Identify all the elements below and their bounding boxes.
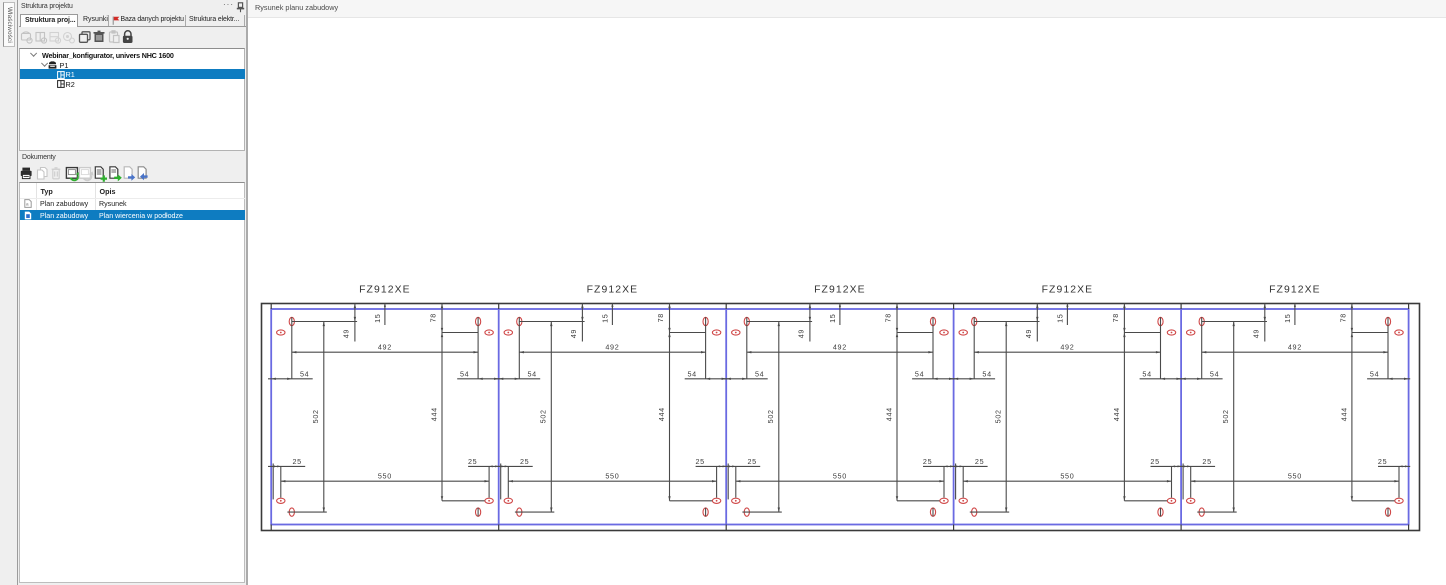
svg-text:25: 25 [292, 457, 301, 466]
properties vertical tab [3, 2, 15, 47]
module 5 hole bottom-left vertical [1199, 508, 1204, 516]
svg-text:550: 550 [833, 471, 847, 480]
icon send document [124, 166, 135, 180]
module 2 dimension 492 [519, 342, 705, 353]
svg-text:25: 25 [1202, 457, 1211, 466]
svg-text:492: 492 [605, 342, 619, 351]
module 2 hole bottom-right vertical [703, 508, 708, 517]
module 5 dimension 15 [1283, 304, 1296, 326]
module 4 dimension 54 right [1140, 369, 1183, 380]
module 4 hole bottom-left vertical [972, 508, 977, 516]
module 1 dimension 54 left [268, 369, 313, 380]
table header [41, 187, 53, 196]
module 3 hole top-left vertical [744, 317, 749, 379]
module 2 dimension 502 [515, 322, 554, 513]
tree row R1 (selected) [57, 71, 65, 79]
module 2 hole bottom-right horizontal [712, 498, 720, 503]
module 5 hole top-right vertical [1385, 317, 1390, 379]
frame stub [498, 304, 500, 531]
svg-text:49: 49 [342, 329, 351, 338]
module 4 hole top-right horizontal [1167, 330, 1175, 335]
module 2 dimension 54 left [496, 369, 541, 380]
module 5 dimension 25 left [1178, 457, 1215, 500]
table row 1 [24, 199, 32, 208]
tree row selection R1 [20, 69, 245, 78]
icon export document [110, 166, 122, 181]
module 1 hole bottom-right vertical [476, 508, 481, 517]
module 5 hole bottom-right vertical [1385, 508, 1390, 517]
svg-text:a: a [26, 202, 29, 207]
svg-text:550: 550 [1060, 471, 1074, 480]
svg-text:15: 15 [1055, 313, 1064, 322]
module 3 hole bottom-left horizontal [732, 498, 740, 503]
svg-text:FZ912XE: FZ912XE [1269, 285, 1321, 296]
svg-text:492: 492 [378, 342, 392, 351]
documents band [22, 154, 56, 161]
module 3 dimension 15 [828, 304, 841, 326]
frame stub [1408, 304, 1410, 531]
module 4 hole bottom-right horizontal [1167, 498, 1175, 503]
module 4 dimension 15 [1055, 304, 1068, 326]
documents toolbar icons [14, 165, 214, 184]
module 2 hole bottom-left vertical [517, 508, 522, 516]
module 3 dimension 25 right [923, 457, 955, 498]
red flag icon [112, 16, 120, 25]
icon delete (bin) [94, 31, 105, 42]
module 1 dimension 502 [287, 322, 326, 513]
module 1 dimension 550 [281, 471, 489, 482]
svg-text:15: 15 [1283, 313, 1292, 322]
pin icon [236, 2, 245, 13]
module 5 hole bottom-right horizontal [1395, 498, 1403, 503]
icon copy [80, 32, 91, 43]
svg-text:54: 54 [300, 369, 309, 378]
module 3 dimension 49 [797, 304, 812, 342]
module 4 dimension 25 left [950, 457, 987, 500]
svg-text:550: 550 [1288, 471, 1302, 480]
svg-text:502: 502 [311, 409, 320, 423]
module 1 hole bottom-left vertical [289, 508, 294, 516]
column separators [36, 183, 37, 210]
project toolbar icons [17, 29, 142, 47]
icon copy (disabled) [38, 167, 48, 179]
module 3 dimension 54 right [912, 369, 955, 380]
module 5 dimension 492 [1202, 342, 1388, 353]
module 5 dimension 78 [1339, 304, 1354, 333]
module 5 hole top-left vertical [1199, 317, 1204, 379]
svg-text:FZ912XE: FZ912XE [814, 285, 866, 296]
module 1 dimension 492 [292, 342, 478, 353]
svg-text:15: 15 [600, 313, 609, 322]
svg-text:550: 550 [605, 471, 619, 480]
module 4 hole bottom-right vertical [1158, 508, 1163, 517]
module 4 dimension 54 left [950, 369, 995, 380]
module 1 dimension 25 left [268, 457, 305, 500]
module 5 hole top-right horizontal [1395, 330, 1403, 335]
module 5 dimension 54 right [1367, 369, 1410, 380]
module 1 dimension 54 right [457, 369, 500, 380]
module 4 dimension 550 [963, 471, 1171, 482]
module 1 leader line top-left [292, 321, 357, 323]
icon paste (disabled) [110, 31, 120, 43]
icon export drawing (disabled) [79, 167, 93, 180]
module 4 dimension 502 [970, 322, 1009, 513]
icon print [21, 167, 32, 178]
module 2 dimension 444 [657, 333, 712, 501]
module 1 hole bottom-left horizontal [277, 498, 285, 503]
icon export drawing [66, 167, 80, 180]
svg-text:FZ912XE: FZ912XE [359, 285, 411, 296]
module 4 hole top-left horizontal [959, 330, 967, 335]
svg-text:FZ912XE: FZ912XE [587, 285, 639, 296]
cabinet divider 1 blue [498, 309, 500, 525]
svg-text:49: 49 [569, 329, 578, 338]
module 5 dimension 502 [1197, 322, 1236, 513]
module 2 dimension 15 [600, 304, 613, 326]
module 5 leader line top-left [1202, 321, 1267, 323]
svg-text:49: 49 [797, 329, 806, 338]
drawing area header bar [248, 0, 1446, 18]
svg-text:54: 54 [527, 369, 536, 378]
module 3 dimension 550 [736, 471, 944, 482]
svg-text:FZ912XE: FZ912XE [1042, 285, 1094, 296]
icon add panel (disabled) [36, 33, 47, 44]
svg-text:502: 502 [994, 409, 1003, 423]
icon remove panel (disabled) [50, 33, 61, 44]
module 1 hole top-left vertical [289, 317, 294, 379]
icon add document [95, 166, 107, 181]
svg-text:15: 15 [373, 313, 382, 322]
module 2 hole top-left horizontal [504, 330, 512, 335]
svg-text:25: 25 [1378, 457, 1387, 466]
module 3 dimension 502 [742, 322, 781, 513]
svg-text:78: 78 [656, 313, 665, 322]
module 4 hole top-right vertical [1158, 317, 1163, 379]
module 2 dimension 78 [656, 304, 671, 333]
svg-text:54: 54 [687, 369, 696, 378]
documents table box [19, 182, 245, 583]
module 1 dimension 78 [429, 304, 444, 333]
svg-text:444: 444 [657, 407, 666, 421]
svg-text:78: 78 [1111, 313, 1120, 322]
tree row project [31, 52, 37, 58]
icon lock [123, 31, 133, 43]
svg-text:492: 492 [1288, 342, 1302, 351]
module 2 hole bottom-left horizontal [504, 498, 512, 503]
icon rotate (disabled) [64, 33, 75, 43]
module 1 hole top-right vertical [476, 317, 481, 379]
module 3 dimension 492 [747, 342, 933, 353]
module 2 hole top-right horizontal [712, 330, 720, 335]
left dock panel [0, 0, 248, 585]
module 1 dimension 15 [373, 304, 386, 326]
tab strip [19, 14, 247, 28]
module 5 dimension 49 [1252, 304, 1267, 342]
svg-text:54: 54 [460, 369, 469, 378]
module 2 dimension 54 right [685, 369, 728, 380]
project tree box [19, 48, 245, 152]
module 4 dimension 25 right [1150, 457, 1182, 498]
module 3 dimension 25 left [723, 457, 760, 500]
module 4 dimension 49 [1024, 304, 1039, 342]
base plate outer outline [262, 304, 1420, 531]
cabinet divider 4 blue [1180, 309, 1182, 525]
module 2 hole top-left vertical [517, 317, 522, 379]
module 5 dimension 550 [1191, 471, 1399, 482]
tree row R2 [57, 80, 65, 88]
svg-text:25: 25 [747, 457, 756, 466]
svg-text:54: 54 [1370, 369, 1379, 378]
svg-text:492: 492 [1060, 342, 1074, 351]
icon new cabinet (disabled) [22, 32, 33, 43]
module 4 hole bottom-left horizontal [959, 498, 967, 503]
module 3 hole bottom-left vertical [744, 508, 749, 516]
svg-text:25: 25 [695, 457, 704, 466]
module 4 dimension 492 [974, 342, 1160, 353]
module 3 hole top-right horizontal [940, 330, 948, 335]
module 3 hole top-left horizontal [732, 330, 740, 335]
icon import document [138, 166, 147, 179]
svg-text:54: 54 [1210, 369, 1219, 378]
svg-text:502: 502 [539, 409, 548, 423]
module 3 leader line top-left [747, 321, 812, 323]
module 3 hole bottom-right vertical [930, 508, 935, 517]
module 2 dimension 25 right [695, 457, 727, 498]
frame stub [725, 304, 727, 531]
svg-text:444: 444 [429, 407, 438, 421]
svg-text:78: 78 [429, 313, 438, 322]
tree row P1 [42, 62, 48, 68]
module 4 hole top-left vertical [972, 317, 977, 379]
svg-text:49: 49 [1252, 329, 1261, 338]
svg-text:25: 25 [975, 457, 984, 466]
module 1 dimension 49 [342, 304, 357, 342]
frame stub [1180, 304, 1182, 531]
cabinet divider 2 blue [725, 309, 727, 525]
svg-text:78: 78 [1339, 313, 1348, 322]
panel titlebar [21, 3, 73, 10]
svg-text:25: 25 [468, 457, 477, 466]
cabinet frame blue outline [271, 309, 1408, 525]
frame stub [270, 304, 272, 531]
module 4 dimension 444 [1112, 333, 1167, 501]
svg-text:444: 444 [1112, 407, 1121, 421]
module 3 hole bottom-right horizontal [940, 498, 948, 503]
svg-text:25: 25 [1150, 457, 1159, 466]
frame stub [953, 304, 955, 531]
svg-text:25: 25 [520, 457, 529, 466]
module 1 dimension 25 right [468, 457, 500, 498]
module 2 leader line top-left [519, 321, 584, 323]
svg-text:54: 54 [1142, 369, 1151, 378]
module 1 dimension 444 [429, 333, 484, 501]
module 3 dimension 78 [884, 304, 899, 333]
svg-text:54: 54 [982, 369, 991, 378]
module 5 dimension 54 left [1178, 369, 1223, 380]
svg-text:54: 54 [915, 369, 924, 378]
module 5 hole top-left horizontal [1187, 330, 1195, 335]
module 3 hole top-right vertical [930, 317, 935, 379]
svg-text:15: 15 [828, 313, 837, 322]
svg-text:25: 25 [923, 457, 932, 466]
svg-text:49: 49 [1024, 329, 1033, 338]
icon delete (disabled) [52, 167, 61, 178]
svg-text:502: 502 [766, 409, 775, 423]
module 2 dimension 550 [508, 471, 716, 482]
module 2 hole top-right vertical [703, 317, 708, 379]
module 5 dimension 25 right [1378, 457, 1410, 498]
svg-text:502: 502 [1221, 409, 1230, 423]
module 5 dimension 444 [1339, 333, 1394, 501]
module 2 dimension 25 left [496, 457, 533, 500]
svg-text:550: 550 [378, 471, 392, 480]
module 1 hole top-left horizontal [277, 330, 285, 335]
svg-text:492: 492 [833, 342, 847, 351]
svg-text:444: 444 [1339, 407, 1348, 421]
cabinet divider 3 blue [953, 309, 955, 525]
module 5 hole bottom-left horizontal [1187, 498, 1195, 503]
module 4 dimension 78 [1111, 304, 1126, 333]
table row 2 selected [20, 210, 245, 220]
svg-text:78: 78 [884, 313, 893, 322]
module 2 dimension 49 [569, 304, 584, 342]
module 3 dimension 54 left [723, 369, 768, 380]
module 4 leader line top-left [974, 321, 1039, 323]
module 3 dimension 444 [884, 333, 939, 501]
svg-text:54: 54 [755, 369, 764, 378]
svg-text:444: 444 [884, 407, 893, 421]
module 1 hole bottom-right horizontal [485, 498, 493, 503]
module 1 hole top-right horizontal [485, 330, 493, 335]
